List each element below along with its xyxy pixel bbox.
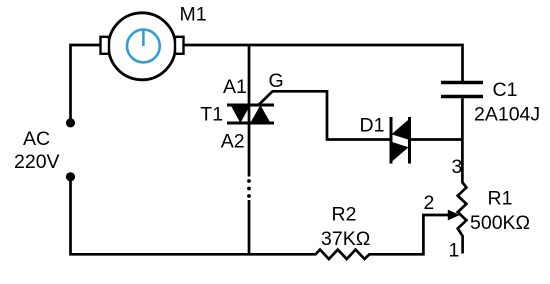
svg-text:1: 1 [449, 240, 460, 262]
svg-text:R1: R1 [488, 188, 513, 210]
svg-text:2A104J: 2A104J [474, 104, 540, 126]
svg-text:M1: M1 [180, 4, 207, 26]
svg-text:220V: 220V [14, 151, 60, 173]
svg-text:D1: D1 [360, 115, 385, 137]
svg-text:G: G [269, 70, 284, 92]
svg-text:A1: A1 [223, 76, 247, 98]
svg-text:C1: C1 [493, 79, 518, 101]
svg-text:2: 2 [424, 192, 435, 214]
svg-text:AC: AC [23, 128, 50, 150]
svg-text:A2: A2 [221, 131, 245, 153]
svg-text:R2: R2 [332, 203, 357, 225]
svg-text:3: 3 [452, 156, 463, 178]
svg-text:500KΩ: 500KΩ [470, 212, 530, 234]
svg-text:T1: T1 [200, 104, 223, 126]
svg-text:37KΩ: 37KΩ [321, 228, 370, 250]
